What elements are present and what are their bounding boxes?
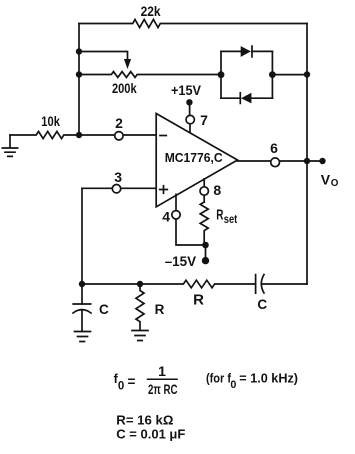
svg-text:0: 0 bbox=[230, 379, 236, 391]
svg-text:+15V: +15V bbox=[171, 82, 202, 98]
svg-text:(for f: (for f bbox=[206, 371, 231, 386]
svg-text:R= 16 kΩ: R= 16 kΩ bbox=[116, 412, 174, 427]
svg-text:1: 1 bbox=[158, 363, 166, 379]
svg-text:2π RC: 2π RC bbox=[148, 381, 178, 397]
svg-text:O: O bbox=[331, 178, 339, 189]
svg-text:V: V bbox=[321, 171, 331, 187]
svg-text:= 1.0 kHz): = 1.0 kHz) bbox=[239, 371, 298, 386]
svg-text:3: 3 bbox=[114, 169, 122, 185]
svg-text:C = 0.01 μF: C = 0.01 μF bbox=[116, 427, 185, 442]
svg-text:10k: 10k bbox=[41, 113, 60, 129]
svg-text:MC1776,C: MC1776,C bbox=[165, 150, 223, 165]
svg-text:7: 7 bbox=[200, 112, 208, 128]
svg-text:=: = bbox=[128, 374, 136, 389]
svg-text:set: set bbox=[224, 212, 238, 226]
svg-text:6: 6 bbox=[270, 140, 278, 156]
svg-text:–15V: –15V bbox=[165, 253, 197, 269]
svg-text:2: 2 bbox=[115, 115, 123, 131]
svg-text:R: R bbox=[216, 207, 223, 224]
svg-text:R: R bbox=[155, 302, 165, 317]
svg-text:8: 8 bbox=[213, 182, 221, 198]
svg-text:R: R bbox=[193, 291, 204, 308]
svg-text:4: 4 bbox=[162, 208, 170, 224]
svg-text:22k: 22k bbox=[141, 3, 161, 19]
svg-text:C: C bbox=[257, 297, 267, 312]
svg-text:0: 0 bbox=[118, 380, 124, 392]
svg-text:C: C bbox=[99, 302, 109, 317]
svg-text:200k: 200k bbox=[112, 80, 137, 96]
